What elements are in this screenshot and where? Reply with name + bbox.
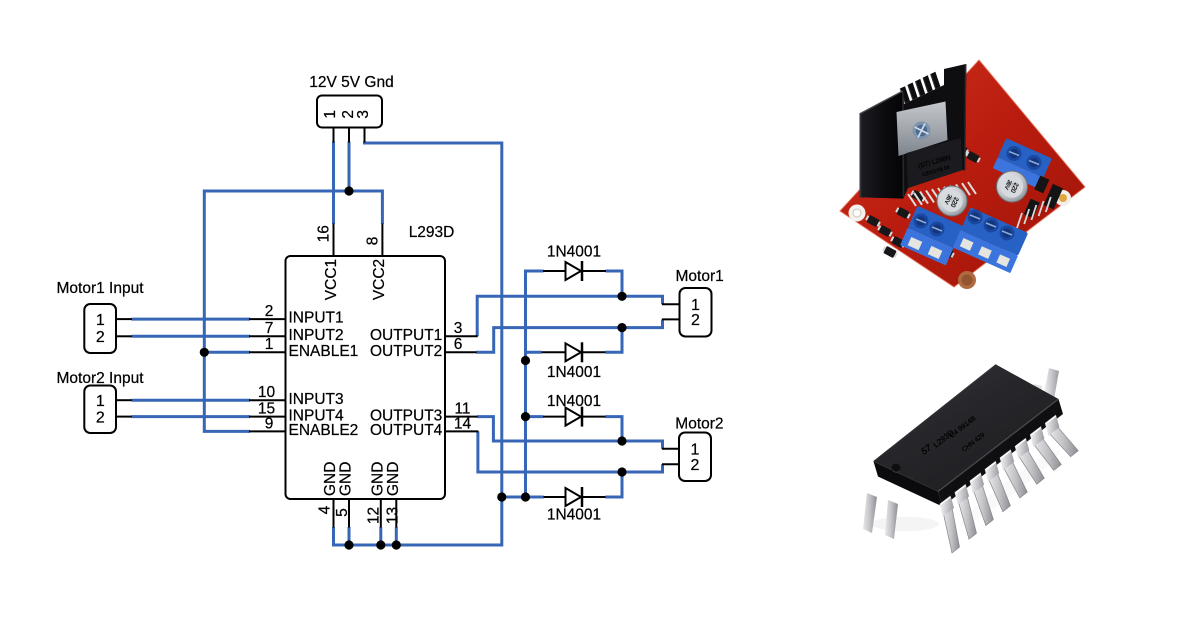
svg-text:1: 1 (96, 312, 105, 329)
svg-text:3: 3 (355, 110, 372, 119)
svg-text:Motor2 Input: Motor2 Input (57, 370, 145, 387)
screw on tab (913, 122, 931, 140)
diode D3 symbol (566, 407, 583, 427)
svg-text:2: 2 (691, 312, 700, 329)
pin blade 1 (940, 496, 960, 554)
electrolytic capacitor c2 (997, 171, 1028, 202)
wire D3 left (526, 415, 544, 418)
svg-text:VCC2: VCC2 (371, 259, 388, 300)
pin stub Motor2 pin1 (662, 448, 680, 450)
svg-text:OUTPUT4: OUTPUT4 (370, 422, 443, 439)
left end pin a (863, 493, 877, 533)
mounting hole right (1055, 190, 1071, 206)
svg-text:2: 2 (265, 303, 274, 320)
diode D2 symbol (566, 342, 583, 362)
svg-text:INPUT1: INPUT1 (289, 310, 344, 327)
pin stub U1 pin9 ENABLE2 (249, 430, 286, 432)
svg-text:3: 3 (454, 320, 463, 337)
svg-text:1N4001: 1N4001 (547, 393, 601, 410)
pin stub U1 pin5 GND (348, 499, 350, 528)
wire OUTPUT2 to Motor1 pin2 (476, 319, 662, 352)
junction dot chain/D4 (521, 492, 530, 501)
wire Motor2 input pin1 to INPUT3 (131, 399, 250, 402)
pin stub U1 pin8 VCC2 (381, 224, 383, 257)
svg-text:1N4001: 1N4001 (547, 364, 601, 381)
junction dot GND/D4 (497, 492, 506, 501)
electrolytic capacitor c1 (937, 186, 967, 216)
wire GND to diode D4 left (502, 496, 544, 499)
svg-text:10: 10 (258, 384, 276, 401)
wire GND pin12 riser (379, 527, 382, 545)
photo: L293D DIP-16 chip (863, 365, 1078, 554)
svg-text:6: 6 (454, 336, 463, 353)
pin1 dimple (892, 464, 901, 473)
wire OUTPUT3 to Motor2 pin1 (477, 417, 662, 449)
junction dot D2/Motor1 rail (617, 323, 626, 332)
wire diode chain vertical and D1 left (526, 271, 544, 497)
connector Motor2 Input box (84, 386, 116, 434)
mounting hole left (849, 205, 866, 222)
svg-text:1N4001: 1N4001 (547, 507, 601, 524)
pin blade 4 (985, 461, 1011, 512)
junction dot GND pin5 (344, 540, 353, 549)
svg-text:2: 2 (96, 409, 105, 426)
pin stub Motor1-input pin2 (116, 335, 132, 337)
pin stub U1 pin6 OUTPUT2 (445, 351, 477, 353)
svg-text:2: 2 (96, 329, 105, 346)
svg-text:14: 14 (454, 415, 472, 432)
blue screw terminal 3-pin bottom middle (953, 207, 1028, 273)
silver leads row (908, 182, 976, 206)
svg-text:4: 4 (317, 505, 334, 514)
svg-text:GND: GND (369, 462, 386, 496)
small SMD components on PCB (865, 214, 882, 228)
pin stub U1 pin13 GND (395, 499, 397, 528)
svg-text:GND: GND (385, 462, 402, 496)
svg-text:OUTPUT2: OUTPUT2 (370, 343, 442, 360)
svg-text:Motor1 Input: Motor1 Input (57, 280, 145, 297)
junction dot GND pin13 (392, 540, 401, 549)
pin stub U1 pin10 INPUT3 (249, 399, 286, 401)
wire D2 left (526, 351, 542, 354)
diode D3 lead line (543, 416, 606, 418)
wire GND pin5 riser (348, 527, 351, 545)
pin stub U1 pin16 VCC1 (333, 224, 335, 257)
back corner pin (1043, 368, 1059, 399)
wire OUTPUT1 to Motor1 pin1 (477, 296, 662, 336)
svg-text:7: 7 (265, 320, 274, 337)
pin stub J1-3 (364, 127, 366, 143)
junction dot D4/Motor2 rail (617, 467, 626, 476)
svg-text:INPUT2: INPUT2 (289, 327, 344, 344)
IC U1 L293D body (286, 256, 446, 499)
pin stub U1 pin4 GND (333, 499, 335, 528)
svg-text:1N4001: 1N4001 (547, 243, 601, 260)
chip left end face (874, 462, 943, 507)
wire Motor1 input pin2 to INPUT2 (131, 335, 250, 338)
svg-text:8: 8 (365, 237, 382, 246)
pin stub U1 pin1 ENABLE1 (249, 351, 286, 353)
connector Motor1 box (680, 288, 712, 337)
svg-text:Motor1: Motor1 (676, 268, 724, 285)
chip shadow (871, 517, 939, 531)
svg-text:1: 1 (96, 393, 105, 410)
left end pin b (885, 500, 898, 539)
diode D1 symbol (566, 261, 583, 281)
junction dot GND pin12 (376, 540, 385, 549)
svg-text:1: 1 (322, 110, 339, 119)
svg-text:12V 5V Gnd: 12V 5V Gnd (309, 74, 393, 91)
pin stub Motor1 pin1 (662, 303, 680, 305)
heatsink black finned (860, 64, 967, 199)
wire OUTPUT4 to Motor2 pin2 (478, 431, 663, 472)
connector J1 power 12V/5V/Gnd box (317, 96, 382, 128)
photo: L298N motor driver board (840, 60, 1085, 289)
pin stub Motor2 pin2 (662, 463, 680, 465)
blue screw terminal 2-pin bottom left (900, 206, 963, 266)
pin stub J1-1 (333, 127, 335, 143)
wire D3 right to Motor2 pin1 rail (605, 417, 622, 441)
junction dot chain/D3 (521, 412, 530, 421)
wire ENABLE1 branch (204, 351, 250, 354)
L298 aluminium tab (897, 102, 948, 157)
pin stub J1-2 (348, 127, 350, 143)
svg-text:1: 1 (265, 336, 274, 353)
wire 12V net: pin1 to VCC1 (332, 142, 335, 225)
wire 5V net: pin2 drop to rail (348, 142, 351, 192)
chip top face (874, 365, 1059, 492)
svg-text:5: 5 (334, 508, 351, 517)
pin blade 5 (1000, 449, 1028, 498)
black jumpers and header pins (1024, 176, 1063, 219)
junction dot D3/Motor2 rail (617, 436, 626, 445)
pin stub U1 pin7 INPUT2 (249, 335, 286, 337)
pin stub Motor2-input pin1 (116, 399, 132, 401)
wire GND net: pin3 right, down right side, bottom bus (334, 142, 502, 546)
wire D2 right to Motor1 pin2 rail (605, 328, 622, 353)
wire Motor1 input pin1 to INPUT1 (131, 318, 250, 321)
chip front face (938, 399, 1063, 507)
pin stub Motor1 pin2 (662, 318, 680, 320)
connector Motor2 box (679, 433, 711, 482)
svg-text:Motor2: Motor2 (675, 415, 723, 432)
connector Motor1 Input box (84, 304, 116, 353)
svg-text:ENABLE1: ENABLE1 (289, 343, 359, 360)
red PCB (840, 60, 1085, 287)
svg-text:ENABLE2: ENABLE2 (289, 422, 359, 439)
svg-text:VCC1: VCC1 (323, 259, 340, 300)
mounting hole bottom (958, 271, 976, 289)
wire Motor2 input pin2 to INPUT4 (131, 415, 250, 418)
svg-text:16: 16 (316, 225, 333, 242)
diode D2 lead line (542, 351, 606, 353)
diode D4 symbol (566, 487, 583, 507)
diode D4 lead line (544, 496, 606, 498)
junction dot ENABLE1 (200, 348, 209, 357)
svg-text:L293D: L293D (409, 224, 455, 241)
pin blade 7 (1030, 426, 1061, 470)
wire D1 right to Motor1 pin1 rail (606, 271, 623, 296)
pin stub U1 pin15 INPUT4 (249, 416, 286, 418)
junction dot pin2/5V rail (344, 186, 353, 195)
wire D4 right to Motor2 pin2 rail (605, 472, 622, 497)
svg-text:OUTPUT1: OUTPUT1 (370, 327, 442, 344)
blue screw terminal 2-pin top right (993, 138, 1052, 188)
L298 package body (907, 138, 963, 188)
pin stub U1 pin3 OUTPUT1 (445, 335, 478, 337)
pin blade 3 (970, 472, 994, 525)
junction dot chain/D2 (521, 356, 530, 365)
pin stub U1 pin11 OUTPUT3 (445, 416, 478, 418)
pin blade 8 (1045, 415, 1078, 457)
svg-text:INPUT3: INPUT3 (289, 391, 344, 408)
pin blade 2 (955, 484, 977, 539)
pin stub U1 pin14 OUTPUT4 (445, 430, 478, 432)
wire GND pin13 riser (395, 527, 398, 545)
svg-text:13: 13 (384, 507, 401, 524)
svg-text:2: 2 (691, 457, 700, 474)
diode D1 lead line (543, 270, 606, 272)
svg-text:GND: GND (337, 462, 354, 496)
wire 5V net: horizontal rail, left enable rail, ENABLE2 branch, VCC2 drop (204, 191, 382, 431)
pin stub U1 pin12 GND (380, 499, 382, 528)
junction dot D1/Motor1 rail (617, 292, 626, 301)
pin stub Motor1-input pin1 (116, 318, 132, 320)
pin stub Motor2-input pin2 (116, 416, 132, 418)
svg-text:GND: GND (322, 462, 339, 496)
pin blade 6 (1015, 438, 1045, 485)
pin stub U1 pin2 INPUT1 (249, 318, 286, 320)
svg-text:9: 9 (265, 415, 274, 432)
svg-text:12: 12 (366, 507, 383, 524)
